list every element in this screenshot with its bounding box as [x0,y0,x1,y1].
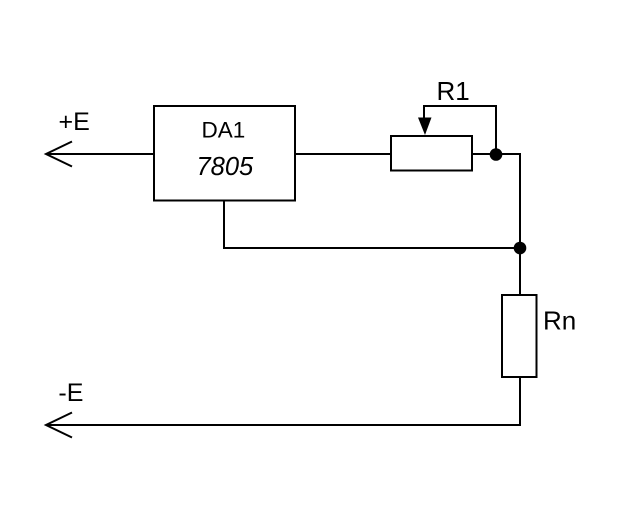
node A (junction dot) [490,148,503,161]
resistor Rn body [502,295,537,377]
wire DA1 ground pin down [223,201,225,248]
wire DA1 ground to node B [223,247,520,249]
wire Rn bottom lead [519,377,521,425]
node B (junction dot) [514,242,527,255]
wire R1 right lead to corner [473,153,520,155]
wire DA1 output to R1 [296,153,391,155]
+E arrow [46,142,72,167]
wire +E lead [47,153,153,155]
wire vertical corner down to Rn [519,153,521,295]
svg-text:-E: -E [58,379,83,407]
svg-text:7805: 7805 [197,153,255,181]
svg-text:DA1: DA1 [202,118,246,143]
svg-text:R1: R1 [437,76,470,106]
svg-text:Rn: Rn [543,306,576,336]
-E arrow [46,413,72,438]
svg-text:+E: +E [59,108,90,136]
voltage regulator DA1 box [154,106,295,201]
wire -E rail [47,424,521,426]
R1 wiper arrow [423,107,425,119]
potentiometer R1 body [391,136,472,171]
wire R1 wiper to node A [423,106,496,154]
